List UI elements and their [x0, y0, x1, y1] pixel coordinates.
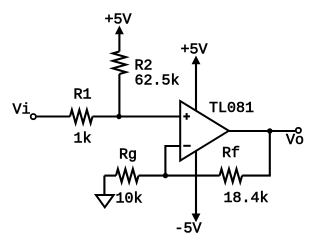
svg-text:Vo: Vo: [286, 132, 304, 149]
svg-text:1k: 1k: [74, 131, 92, 148]
svg-text:+5V: +5V: [181, 42, 208, 59]
svg-text:-5V: -5V: [175, 221, 202, 238]
svg-text:R1: R1: [74, 87, 92, 104]
svg-text:TL081: TL081: [209, 100, 254, 117]
svg-text:Vi: Vi: [13, 102, 31, 119]
svg-text:18.4k: 18.4k: [224, 190, 269, 207]
svg-text:Rf: Rf: [222, 145, 240, 162]
svg-text:Rg: Rg: [119, 146, 137, 163]
svg-text:62.5k: 62.5k: [135, 73, 180, 90]
svg-text:+5V: +5V: [105, 12, 132, 29]
svg-text:10k: 10k: [116, 190, 143, 207]
